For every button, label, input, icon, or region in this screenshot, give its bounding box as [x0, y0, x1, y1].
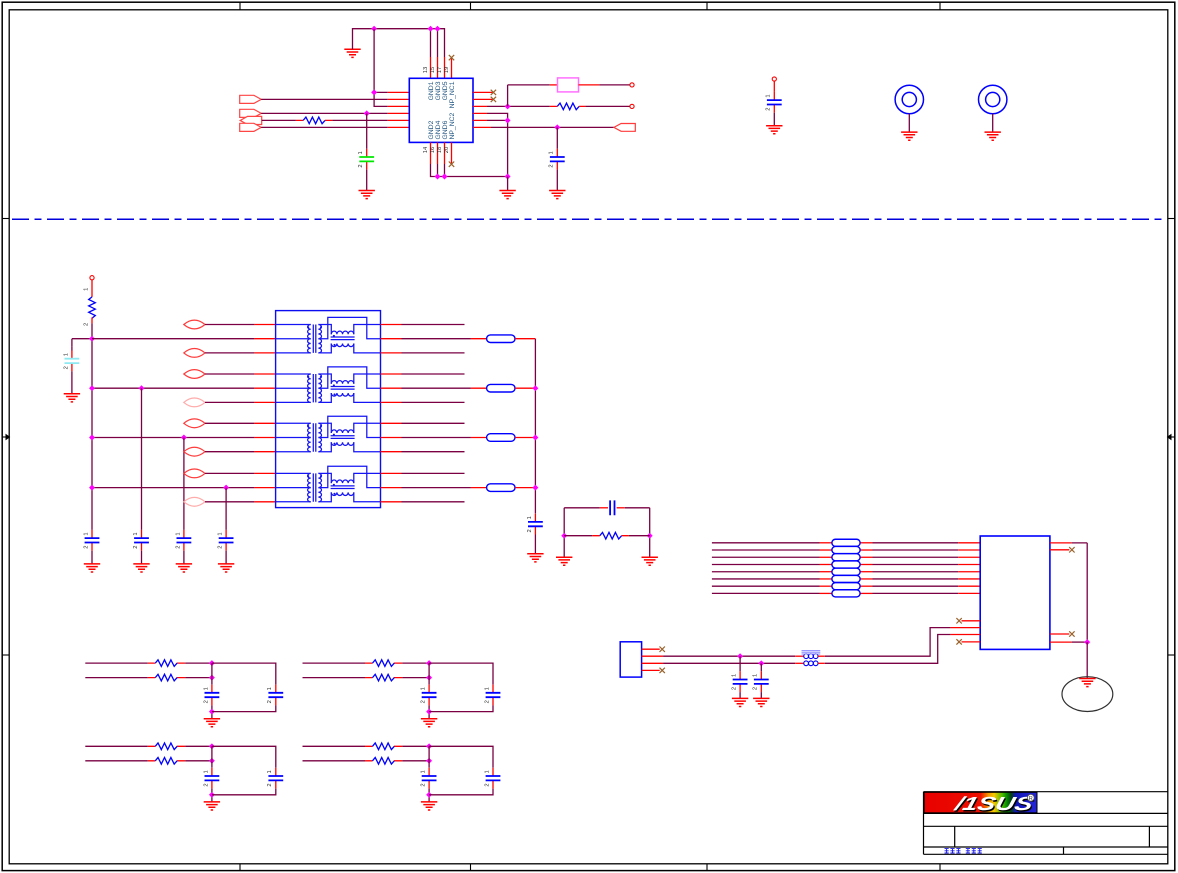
svg-text:GND2: GND2: [428, 120, 435, 139]
wire MH1 to ground: [908, 114, 910, 132]
svg-text:18: 18: [437, 147, 443, 153]
wire C7 to right vertical: [625, 508, 650, 557]
wire RC loop top branch: [564, 507, 600, 509]
wire FB1 to tap bus: [515, 338, 535, 340]
capacitor C21: [492, 768, 494, 776]
wire T1 ch4 tap to bead: [402, 487, 471, 489]
connector oval MDI2+: [184, 419, 205, 428]
junction row C cap drop: [181, 435, 187, 441]
wire FB2 to tap bus: [515, 387, 535, 389]
pin 20 no-connect stub: [451, 142, 453, 163]
wire RC bottom branch: [564, 535, 592, 537]
wire MDI line 8 right: [860, 592, 872, 594]
wire MDI line 4 left: [712, 563, 820, 565]
wire J1 pin b: [950, 634, 980, 636]
wire MDI line 2 right: [860, 549, 872, 551]
svg-text:/1SUS: /1SUS: [951, 794, 1035, 815]
wire P4 to U: [261, 126, 388, 128]
wire MDI line 3 left: [712, 556, 820, 558]
Y1 pin nc top: [642, 648, 660, 650]
capacitor C16: [428, 685, 430, 693]
svg-text:R: R: [1029, 796, 1033, 802]
wire cap drop B: [141, 388, 143, 530]
junction bus row B: [89, 385, 95, 391]
J1 right pin nc4: [1050, 633, 1069, 635]
wire J2 to C11: [773, 81, 775, 92]
svg-text:1: 1: [83, 532, 89, 535]
pad circle (termination top): [90, 276, 94, 280]
transformer T1 channel 2 windings: [276, 367, 381, 403]
ferrite bead FB10: [832, 575, 860, 582]
wire R7 to junction: [402, 662, 429, 664]
svg-text:2: 2: [267, 783, 273, 786]
wire MDI line 5 left: [712, 571, 820, 573]
wire block2 right branch: [429, 663, 493, 684]
junction block4 c: [426, 792, 432, 798]
resistor R3 (vertical): [89, 297, 96, 318]
wire R8 to junction: [402, 677, 429, 679]
wire block3 bottom return: [212, 789, 276, 795]
inductor L1 (pink box): [558, 78, 579, 92]
wire pin5 join: [487, 119, 508, 121]
wire shield to chassis: [1086, 642, 1088, 678]
ground (C3): [133, 564, 149, 572]
U bottom pin stubs 14 16 18: [431, 142, 445, 164]
wire MDI3- to T1: [205, 501, 254, 503]
svg-text:GND1: GND1: [428, 81, 435, 100]
T1 left pin stubs: [254, 325, 275, 502]
svg-text:1: 1: [421, 687, 427, 690]
svg-text:15: 15: [430, 67, 436, 73]
J1 lower-left pin nc1: [962, 620, 981, 622]
capacitor C13: [760, 671, 762, 679]
junction block3 c: [209, 792, 215, 798]
wire block1 row2: [85, 677, 148, 679]
svg-text:2: 2: [753, 687, 759, 690]
wire C5 to ground: [225, 551, 227, 564]
wire C13 branch: [760, 663, 762, 671]
wire FB4 to tap bus: [515, 487, 535, 489]
wire T1 ch3 out-: [402, 451, 465, 453]
wire MDI line 4 right: [860, 563, 872, 565]
wire bottom pins to ground bus: [431, 164, 508, 177]
capacitor C10: [556, 149, 558, 157]
wire L1 to pad: [579, 84, 600, 86]
svg-text:20: 20: [444, 147, 450, 153]
wire R4 to right: [629, 535, 650, 537]
wire MDI line 7 left: [712, 585, 820, 587]
junction tap bus D: [532, 485, 538, 491]
ASUS logo text: [951, 794, 1037, 816]
connector P5 (arrow left): [614, 124, 635, 132]
svg-text:GND6: GND6: [442, 120, 449, 139]
wire MDI3+ to T1: [205, 472, 254, 474]
svg-text:1: 1: [267, 770, 273, 773]
junction row B cap drop: [139, 385, 145, 391]
svg-text:GND4: GND4: [435, 120, 442, 139]
wire R1 to U: [332, 119, 387, 121]
wire C10 to ground: [556, 170, 558, 191]
wire tap bus vertical: [534, 339, 536, 514]
wire centre-tap bus vertical: [91, 339, 93, 530]
pad circle J2: [772, 77, 776, 81]
wire C13 to ground: [760, 692, 762, 698]
wire MDI line 1 left: [712, 542, 820, 544]
wire block3 row2: [85, 760, 148, 762]
chassis ground ellipse: [1062, 677, 1113, 712]
ground (RC left): [556, 557, 572, 565]
wire R12 to junction: [402, 760, 429, 762]
svg-text:1: 1: [484, 687, 490, 690]
junction top rail A: [371, 26, 377, 32]
wire choke right run b: [818, 662, 825, 664]
capacitor C11: [773, 92, 775, 100]
svg-text:1: 1: [766, 94, 772, 97]
capacitor C4: [183, 530, 185, 538]
svg-text:1: 1: [63, 353, 69, 356]
junction C9 tap: [364, 110, 370, 116]
resistor R6: [155, 674, 177, 681]
junction bus row D: [89, 485, 95, 491]
svg-text:1: 1: [175, 532, 181, 535]
svg-text:2: 2: [421, 700, 427, 703]
svg-text:1: 1: [753, 674, 759, 677]
wire top ground rail: [353, 29, 445, 57]
junction block1 a: [209, 660, 215, 666]
wire block4 row2: [303, 760, 366, 762]
wire pin6 row to arrow port: [491, 126, 614, 128]
wire R2 to pad: [585, 105, 629, 107]
wire C2 to ground: [91, 551, 93, 564]
connector J1 (RJ45) body: [980, 536, 1050, 649]
svg-text:2: 2: [549, 164, 555, 167]
resistor R4: [592, 535, 629, 537]
pin 19 no-connect stub: [451, 58, 453, 79]
connector P4 (port right): [240, 123, 262, 131]
resistor R2: [550, 105, 586, 107]
pad circle row1: [630, 83, 634, 87]
junction pin3/vertical: [505, 103, 511, 109]
wire block3 row1: [85, 745, 148, 747]
wire T1 ch1 tap to bead: [402, 338, 471, 340]
svg-text:1: 1: [267, 687, 273, 690]
wire P3 to resistor R1: [262, 119, 296, 121]
wire pin13 drop: [430, 29, 432, 57]
transformer T1 body: [276, 311, 381, 508]
connector oval MDI3+: [184, 469, 205, 478]
junction block2 b: [426, 675, 432, 681]
svg-text:1: 1: [218, 532, 224, 535]
svg-text:13: 13: [423, 67, 429, 73]
transformer T1 channel 4 windings: [276, 466, 381, 502]
ground (C4): [176, 564, 192, 572]
connector oval MDI3-: [184, 497, 205, 506]
svg-text:1: 1: [358, 151, 364, 154]
svg-text:2: 2: [732, 687, 738, 690]
wire pin15 drop: [437, 29, 439, 57]
ground (C5): [218, 564, 234, 572]
capacitor C3: [141, 530, 143, 538]
capacitor C20: [428, 768, 430, 776]
wire MDI0+ to T1: [205, 324, 254, 326]
junction pin5: [505, 117, 511, 123]
connector P3 (port left): [240, 116, 262, 124]
ground (C9): [359, 191, 375, 199]
junction block1 b: [209, 675, 215, 681]
mounting hole MH1: [895, 85, 923, 113]
J1 right pin nc3: [1050, 549, 1069, 551]
capacitor C15: [275, 685, 277, 693]
wire block2 centre drop: [428, 663, 430, 684]
wire C9 to ground: [366, 170, 368, 191]
ground (RC right): [642, 557, 658, 565]
wire MDI2- to T1: [205, 451, 254, 453]
svg-text:2: 2: [484, 783, 490, 786]
wire MH2 to ground: [992, 114, 994, 132]
resistor R5: [155, 660, 177, 667]
junction block2 a: [426, 660, 432, 666]
resistor R1: [296, 119, 333, 121]
wire RC loop left vertical: [563, 508, 565, 557]
wire MDI line 1 right: [860, 542, 872, 544]
junction block1 c: [209, 709, 215, 715]
J1 right pin shield1: [1050, 542, 1072, 544]
wire cap drop D: [225, 488, 227, 530]
wire Y1 mid2: [642, 662, 664, 664]
wire C20 down: [428, 789, 430, 802]
junction top rail C: [435, 26, 441, 32]
wire FB3 to tap bus: [515, 437, 535, 439]
component Y1 body: [620, 642, 641, 677]
ground (top rail): [344, 49, 360, 57]
ground (block3): [204, 802, 220, 810]
wire C4 to ground: [183, 551, 185, 564]
svg-text:1: 1: [203, 687, 209, 690]
wire R10 to junction: [185, 760, 212, 762]
wire row D to T1: [92, 487, 254, 489]
junction C10 tap: [554, 124, 560, 130]
wire MDI line 6 left: [712, 578, 820, 580]
wire MDI1+ to T1: [205, 373, 254, 375]
svg-text:NP_NC2: NP_NC2: [449, 112, 456, 139]
svg-text:1: 1: [732, 674, 738, 677]
wire row B to T1: [92, 387, 254, 389]
wire MDI1- to T1: [205, 401, 254, 403]
wire T1 ch2 out+: [402, 373, 465, 375]
svg-text:2: 2: [133, 545, 139, 548]
ferrite bead FB2: [487, 384, 515, 392]
wire cap drop C: [183, 438, 185, 530]
svg-text:1: 1: [203, 770, 209, 773]
resistor R11: [373, 743, 395, 750]
connector oval MDI1+: [184, 370, 205, 379]
svg-text:2: 2: [267, 700, 273, 703]
ferrite bead FB6: [832, 546, 860, 553]
ground (block2): [421, 719, 437, 727]
svg-text:2: 2: [484, 700, 490, 703]
svg-text:2: 2: [83, 323, 89, 326]
wire C10 branch: [556, 127, 558, 148]
svg-text:14: 14: [423, 146, 429, 153]
junction shield: [1084, 639, 1090, 645]
ground (C6): [527, 554, 543, 562]
J1 right pin shield2: [1050, 641, 1072, 643]
junction tap bus B: [532, 385, 538, 391]
svg-text:GND5: GND5: [442, 81, 449, 100]
junction block4 b: [426, 758, 432, 764]
wire C9 branch: [366, 113, 368, 148]
ground (C12): [732, 698, 748, 706]
ferrite bead FB9: [832, 568, 860, 575]
wire C6 to ground: [534, 535, 536, 554]
junction row D cap drop: [223, 485, 229, 491]
wire block2 bottom return: [429, 705, 493, 711]
ground (chassis): [1079, 679, 1095, 687]
wire block1 row1: [85, 662, 148, 664]
wire T1 ch2 tap to bead: [402, 387, 471, 389]
no-connect X pin1: [491, 90, 496, 95]
ferrite bead FB3: [487, 434, 515, 442]
wire block2 row1: [303, 662, 366, 664]
wire MDI line 6 right: [860, 578, 872, 580]
wire T1 ch4 out-: [402, 501, 465, 503]
wire MDI line 7 right: [860, 585, 872, 587]
wire C1 to ground: [71, 371, 73, 394]
junction block2 c: [426, 709, 432, 715]
svg-text:19: 19: [444, 67, 450, 73]
svg-text:2: 2: [421, 783, 427, 786]
wire R6 to junction: [185, 677, 212, 679]
pad circle row2: [630, 104, 634, 108]
wire left vertical feed: [374, 29, 388, 107]
Y1 pin nc bottom: [642, 669, 660, 671]
ground (C1): [64, 394, 80, 402]
capacitor C7 (horizontal): [600, 507, 608, 509]
wire MDI0- to T1: [205, 352, 254, 354]
capacitor C18: [211, 768, 213, 776]
ground (U bottom): [499, 191, 515, 199]
wire R9 to junction: [185, 745, 212, 747]
svg-text:1: 1: [484, 770, 490, 773]
junction C12 tap: [737, 653, 743, 659]
wire C12 to ground: [739, 692, 741, 698]
connector oval MDI0+: [184, 320, 205, 329]
junction C13 tap: [758, 660, 764, 666]
resistor R12: [373, 758, 395, 765]
junction tap bus C: [532, 435, 538, 441]
ferrite bead FB11: [832, 583, 860, 590]
wire R3 to bus: [91, 317, 93, 323]
svg-text:2: 2: [83, 545, 89, 548]
svg-text:NP_NC1: NP_NC1: [449, 81, 456, 108]
wire T1 ch2 out-: [402, 401, 465, 403]
ground (MH2): [985, 132, 1001, 140]
wire row C to T1: [92, 437, 254, 439]
transformer T1 channel 1 windings: [276, 317, 381, 353]
wire R11 to junction: [402, 745, 429, 747]
wire row A to cyan cap corner: [72, 339, 92, 347]
resistor R7: [373, 660, 395, 667]
ferrite bead FB8: [832, 561, 860, 568]
capacitor C9 (green): [366, 149, 368, 157]
wire row A to T1: [92, 338, 254, 340]
no-connect X pin2: [491, 97, 496, 102]
wire choke right run a: [818, 655, 825, 657]
svg-text:2: 2: [358, 164, 364, 167]
right pin stubs of U: [473, 92, 493, 127]
junction block3 a: [209, 743, 215, 749]
junction b2: [442, 174, 448, 180]
ground (C11): [766, 126, 782, 134]
connector P1 (port right): [240, 95, 262, 103]
ground (C2): [84, 564, 100, 572]
svg-text:GND3: GND3: [435, 81, 442, 100]
connector oval MDI1-: [184, 398, 205, 407]
wire pin4 down feed: [487, 113, 508, 176]
resistor R8: [373, 674, 395, 681]
IC U1 body: [409, 78, 473, 142]
ground (C13): [753, 698, 769, 706]
svg-text:2: 2: [203, 783, 209, 786]
ground (C10): [549, 191, 565, 199]
wire T1 ch1 out-: [402, 352, 465, 354]
title block frame: [924, 792, 1168, 855]
svg-text:1: 1: [133, 532, 139, 535]
wire C11 to ground: [773, 113, 775, 126]
connector oval MDI2-: [184, 447, 205, 456]
wire block3 centre drop: [211, 746, 213, 767]
wire block4 bottom return: [429, 789, 493, 795]
ground (block1): [204, 719, 220, 727]
connector P2 (port right): [240, 109, 262, 117]
capacitor C19: [275, 768, 277, 776]
capacitor C2: [91, 530, 93, 538]
wire bus to ground: [507, 177, 509, 191]
wire MDI line 5 right: [860, 571, 872, 573]
junction block3 b: [209, 758, 215, 764]
junction b3: [505, 174, 511, 180]
wire block3 right branch: [212, 746, 276, 767]
resistor R10: [155, 758, 177, 765]
date text (chinese): [945, 849, 982, 853]
capacitor C6: [534, 514, 536, 522]
wire T1 ch3 out+: [402, 422, 465, 424]
wire P2 to U: [261, 112, 388, 114]
svg-text:1: 1: [83, 288, 89, 291]
wire P1 to U: [261, 98, 388, 100]
border centre arrow right: [1168, 435, 1174, 440]
horizontal blue dash-dot separator line: [12, 218, 1167, 220]
ferrite bead FB7: [832, 554, 860, 561]
svg-text:2: 2: [175, 545, 181, 548]
wire T1 ch4 out+: [402, 472, 465, 474]
wire MDI line 8 left: [712, 592, 820, 594]
wire vertical to L row: [507, 85, 509, 107]
junction top rail B: [428, 26, 434, 32]
wire MDI line 3 right: [860, 556, 872, 558]
svg-text:2: 2: [766, 107, 772, 110]
T1 right pin stubs: [381, 325, 402, 502]
capacitor C14: [211, 685, 213, 693]
wire T1 ch3 tap to bead: [402, 437, 471, 439]
border centre arrow left: [3, 435, 9, 440]
ferrite bead FB4: [487, 484, 515, 492]
ground (block4): [421, 802, 437, 810]
capacitor C1 (cyan): [71, 346, 73, 350]
svg-text:2: 2: [203, 700, 209, 703]
junction block4 a: [426, 743, 432, 749]
wire block4 centre drop: [428, 746, 430, 767]
